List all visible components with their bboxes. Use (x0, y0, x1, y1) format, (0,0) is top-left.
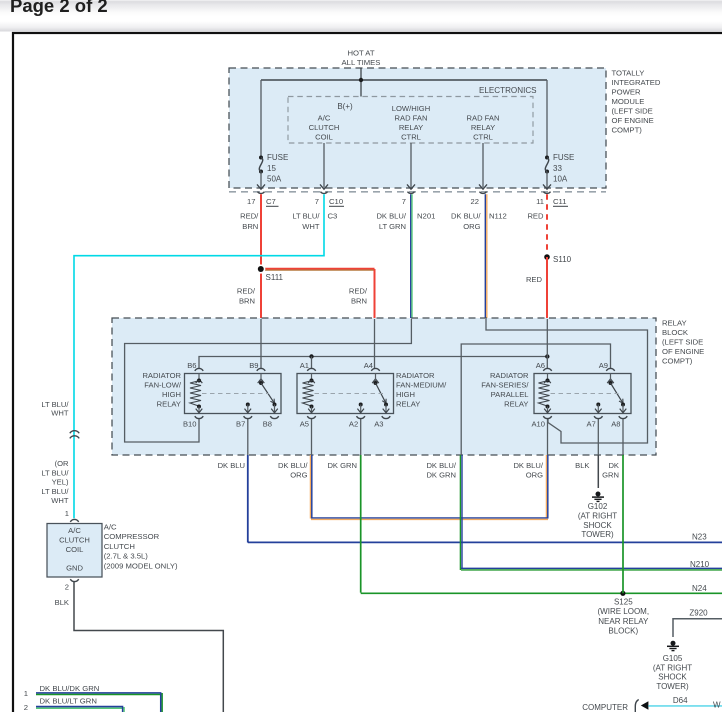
svg-text:DK BLU/: DK BLU/ (278, 461, 308, 470)
svg-text:DK: DK (608, 461, 619, 470)
svg-text:DK GRN: DK GRN (426, 470, 456, 479)
svg-text:ORG: ORG (526, 470, 543, 479)
svg-text:CLUTCH: CLUTCH (59, 536, 90, 545)
svg-text:RED/: RED/ (349, 287, 368, 296)
svg-text:RELAY: RELAY (504, 400, 528, 409)
svg-text:BLOCK: BLOCK (662, 328, 689, 337)
svg-text:HIGH: HIGH (396, 390, 415, 399)
svg-text:SHOCK: SHOCK (583, 521, 612, 530)
svg-text:LT BLU/: LT BLU/ (292, 212, 320, 221)
svg-text:B10: B10 (183, 420, 197, 429)
svg-text:A8: A8 (611, 420, 620, 429)
svg-text:(LEFT SIDE: (LEFT SIDE (612, 107, 653, 116)
svg-text:RED/: RED/ (237, 287, 256, 296)
svg-text:N112: N112 (489, 212, 507, 221)
svg-text:S125: S125 (614, 597, 633, 606)
svg-text:FAN-MEDIUM/: FAN-MEDIUM/ (396, 381, 447, 390)
svg-text:C10: C10 (329, 197, 343, 206)
svg-text:1: 1 (24, 689, 28, 698)
svg-text:DK BLU/: DK BLU/ (451, 212, 481, 221)
svg-text:W: W (713, 701, 721, 710)
svg-text:2: 2 (24, 703, 28, 712)
svg-text:RADIATOR: RADIATOR (490, 371, 529, 380)
svg-text:MODULE: MODULE (612, 97, 645, 106)
svg-text:RAD FAN: RAD FAN (467, 114, 500, 123)
svg-text:A7: A7 (587, 420, 596, 429)
svg-text:RELAY: RELAY (399, 123, 423, 132)
svg-text:COMPT): COMPT) (662, 357, 693, 366)
svg-text:FUSE: FUSE (553, 153, 574, 162)
svg-text:COMPT): COMPT) (612, 126, 643, 135)
svg-text:A1: A1 (300, 361, 309, 370)
svg-text:ALL TIMES: ALL TIMES (342, 58, 381, 67)
svg-text:17: 17 (247, 197, 255, 206)
svg-text:A10: A10 (531, 420, 545, 429)
svg-text:S110: S110 (553, 255, 572, 264)
svg-text:C7: C7 (266, 197, 276, 206)
svg-text:B(+): B(+) (337, 102, 353, 111)
svg-text:(AT RIGHT: (AT RIGHT (578, 511, 617, 520)
svg-text:POWER: POWER (612, 88, 641, 97)
svg-text:WHT: WHT (302, 222, 320, 231)
svg-text:11: 11 (536, 197, 544, 206)
svg-text:RELAY: RELAY (662, 319, 687, 328)
svg-text:B8: B8 (263, 420, 272, 429)
svg-text:A9: A9 (599, 361, 608, 370)
svg-text:RELAY: RELAY (471, 123, 495, 132)
svg-text:RAD FAN: RAD FAN (395, 114, 428, 123)
svg-text:LT GRN: LT GRN (379, 222, 406, 231)
svg-text:DK GRN: DK GRN (327, 461, 357, 470)
svg-text:D64: D64 (673, 696, 688, 705)
svg-text:RELAY: RELAY (396, 400, 420, 409)
svg-text:CLUTCH: CLUTCH (309, 123, 340, 132)
svg-text:N210: N210 (690, 560, 710, 569)
svg-text:CTRL: CTRL (401, 133, 421, 142)
svg-text:COMPUTER: COMPUTER (582, 703, 628, 712)
svg-text:ELECTRONICS: ELECTRONICS (479, 86, 537, 95)
svg-text:7: 7 (402, 197, 406, 206)
svg-text:COMPRESSOR: COMPRESSOR (104, 532, 160, 541)
svg-text:FUSE: FUSE (267, 153, 288, 162)
svg-text:OF ENGINE: OF ENGINE (612, 116, 654, 125)
svg-text:A2: A2 (349, 420, 358, 429)
svg-text:SHOCK: SHOCK (658, 673, 687, 682)
svg-text:A6: A6 (536, 361, 545, 370)
svg-text:CTRL: CTRL (473, 133, 493, 142)
svg-text:A4: A4 (364, 361, 373, 370)
svg-text:DK BLU/LT GRN: DK BLU/LT GRN (40, 697, 97, 706)
svg-text:2: 2 (65, 583, 69, 592)
svg-text:A/C: A/C (68, 526, 81, 535)
svg-text:LOW/HIGH: LOW/HIGH (392, 104, 430, 113)
svg-text:ORG: ORG (463, 222, 480, 231)
svg-text:RED: RED (527, 212, 544, 221)
svg-text:(2.7L & 3.5L): (2.7L & 3.5L) (104, 552, 149, 561)
svg-text:TOTALLY: TOTALLY (612, 69, 645, 78)
svg-text:B9: B9 (249, 361, 258, 370)
svg-text:RADIATOR: RADIATOR (142, 371, 181, 380)
svg-text:LT BLU/: LT BLU/ (41, 487, 69, 496)
svg-text:A/C: A/C (318, 114, 331, 123)
svg-text:FAN-SERIES/: FAN-SERIES/ (481, 381, 529, 390)
svg-text:A5: A5 (300, 420, 309, 429)
svg-text:BLOCK): BLOCK) (608, 627, 638, 636)
svg-text:BRN: BRN (242, 222, 258, 231)
svg-text:Page 2 of 2: Page 2 of 2 (10, 0, 108, 16)
svg-text:50A: 50A (267, 174, 282, 183)
svg-text:GRN: GRN (602, 470, 619, 479)
svg-text:A/C: A/C (104, 522, 117, 531)
svg-text:A3: A3 (374, 420, 383, 429)
svg-text:S111: S111 (266, 273, 284, 282)
svg-text:DK BLU: DK BLU (218, 461, 245, 470)
svg-text:ORG: ORG (290, 470, 307, 479)
svg-text:LT BLU/: LT BLU/ (41, 468, 69, 477)
svg-text:(OR: (OR (55, 459, 69, 468)
svg-text:(LEFT SIDE: (LEFT SIDE (662, 338, 703, 347)
svg-text:NEAR RELAY: NEAR RELAY (598, 617, 649, 626)
svg-text:(2009 MODEL ONLY): (2009 MODEL ONLY) (104, 562, 178, 571)
svg-text:7: 7 (315, 197, 319, 206)
svg-text:COIL: COIL (66, 545, 84, 554)
svg-text:(AT RIGHT: (AT RIGHT (653, 663, 692, 672)
svg-text:15: 15 (267, 164, 276, 173)
svg-text:TOWER): TOWER) (581, 530, 614, 539)
svg-text:B7: B7 (236, 420, 245, 429)
svg-text:1: 1 (65, 509, 69, 518)
svg-text:OF ENGINE: OF ENGINE (662, 347, 704, 356)
svg-text:RADIATOR: RADIATOR (396, 371, 435, 380)
svg-text:RED: RED (526, 275, 543, 284)
svg-text:C11: C11 (553, 197, 567, 206)
svg-text:TOWER): TOWER) (656, 682, 689, 691)
svg-text:G102: G102 (588, 502, 608, 511)
svg-text:HIGH: HIGH (162, 390, 181, 399)
svg-text:DK BLU/: DK BLU/ (513, 461, 543, 470)
svg-text:WHT: WHT (51, 409, 69, 418)
svg-text:YEL): YEL) (52, 478, 69, 487)
svg-text:WHT: WHT (51, 496, 69, 505)
svg-text:N201: N201 (417, 212, 435, 221)
svg-text:BRN: BRN (239, 297, 255, 306)
svg-text:DK BLU/: DK BLU/ (426, 461, 456, 470)
svg-text:DK BLU/DK GRN: DK BLU/DK GRN (40, 684, 100, 693)
svg-text:FAN-LOW/: FAN-LOW/ (144, 381, 182, 390)
svg-text:10A: 10A (553, 174, 568, 183)
svg-text:BLK: BLK (55, 598, 69, 607)
svg-text:C3: C3 (328, 212, 338, 221)
svg-text:BLK: BLK (575, 461, 589, 470)
svg-text:33: 33 (553, 164, 562, 173)
svg-text:CLUTCH: CLUTCH (104, 542, 135, 551)
svg-text:22: 22 (471, 197, 479, 206)
svg-text:Z920: Z920 (689, 609, 708, 618)
svg-text:PARALLEL: PARALLEL (491, 390, 529, 399)
svg-text:RED/: RED/ (240, 212, 259, 221)
svg-text:RELAY: RELAY (157, 400, 181, 409)
svg-text:(WIRE LOOM,: (WIRE LOOM, (598, 607, 650, 616)
svg-text:HOT AT: HOT AT (347, 48, 374, 57)
svg-text:N24: N24 (692, 584, 707, 593)
svg-text:G105: G105 (663, 654, 683, 663)
svg-text:DK BLU/: DK BLU/ (376, 212, 406, 221)
svg-text:COIL: COIL (315, 133, 333, 142)
svg-text:BRN: BRN (351, 297, 367, 306)
svg-text:INTEGRATED: INTEGRATED (612, 78, 661, 87)
svg-text:N23: N23 (692, 533, 707, 542)
svg-text:B6: B6 (187, 361, 196, 370)
svg-text:GND: GND (66, 564, 83, 573)
